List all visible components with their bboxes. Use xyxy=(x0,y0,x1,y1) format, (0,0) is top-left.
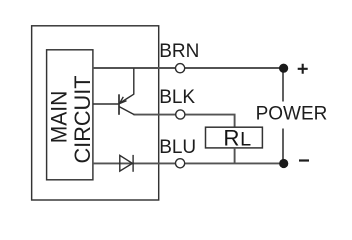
power rail upper segment xyxy=(282,68,284,102)
terminal BLU xyxy=(176,159,185,168)
emitter lead xyxy=(133,68,135,94)
diode cathode bar xyxy=(132,155,134,172)
wire RL to BLU xyxy=(234,148,236,164)
svg-text:POWER: POWER xyxy=(256,103,328,124)
base bar xyxy=(118,94,120,115)
emitter arrow xyxy=(119,97,126,104)
minus sign xyxy=(299,159,309,161)
terminal BLK xyxy=(176,110,185,119)
wire BRN (main circuit to + node) xyxy=(93,67,284,69)
sensor case outline xyxy=(32,26,159,200)
collector diagonal xyxy=(119,107,134,115)
main circuit box xyxy=(47,50,93,180)
svg-text:BLU: BLU xyxy=(159,137,196,158)
svg-text:RL: RL xyxy=(223,125,251,150)
transistor Q1 (PNP) xyxy=(93,68,134,115)
emitter diagonal xyxy=(119,94,133,103)
svg-text:MAIN: MAIN xyxy=(46,91,71,144)
terminal BRN xyxy=(176,64,185,73)
diode triangle xyxy=(120,155,133,171)
base wire xyxy=(93,103,119,105)
node - (junction dot) xyxy=(279,159,288,168)
svg-text:BRN: BRN xyxy=(159,41,199,62)
node + (junction dot) xyxy=(279,64,288,73)
power rail lower segment xyxy=(282,129,284,164)
svg-text:BLK: BLK xyxy=(159,87,195,108)
diode D1 xyxy=(120,155,133,172)
wire BLK (collector to load) xyxy=(134,115,235,128)
plus sign xyxy=(298,64,308,74)
load resistor RL box xyxy=(206,127,263,148)
wire BLU (main circuit to - node) xyxy=(93,162,284,164)
svg-text:CIRCUIT: CIRCUIT xyxy=(70,75,95,163)
